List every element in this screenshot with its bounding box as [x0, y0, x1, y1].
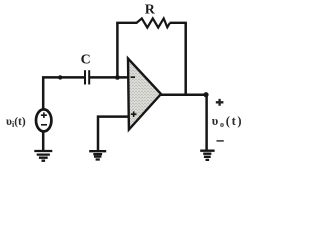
source plus sign — [41, 112, 47, 118]
source minus sign — [41, 124, 47, 126]
node dot on input wire — [58, 75, 62, 79]
wire: feedback left vertical (inverting node up to R) — [116, 23, 119, 79]
wire: output node down to ground — [205, 95, 208, 150]
op-amp inverting input minus sign — [131, 76, 135, 78]
ground (left, under source) — [34, 151, 52, 161]
output plus polarity mark — [216, 99, 224, 106]
wire: capacitor to op-amp inverting input — [89, 76, 128, 79]
wire: source bottom to ground — [42, 131, 45, 152]
junction dot: output node — [203, 92, 208, 97]
voltage source Vi ellipse — [36, 109, 51, 131]
output minus polarity mark — [217, 140, 224, 142]
capacitor C left plate — [84, 70, 86, 84]
junction dot: inverting node A — [115, 75, 120, 80]
op-amp U1 triangle — [128, 59, 161, 130]
ground (right, at output) — [200, 151, 214, 160]
wire: top rail right segment — [170, 22, 187, 24]
wire: top rail left segment — [116, 22, 137, 24]
op-amp non-inverting plus sign — [131, 111, 137, 117]
wire: op-amp output to output node — [160, 93, 207, 96]
svg-text:R: R — [145, 3, 156, 18]
ground (middle, at + input) — [89, 151, 106, 159]
capacitor C right plate — [88, 70, 90, 84]
wire: source top to capacitor (corner at left) — [43, 77, 84, 109]
svg-text:υo(t): υo(t) — [212, 114, 244, 129]
resistor R (zigzag) — [136, 18, 169, 27]
svg-text:C: C — [81, 53, 91, 68]
wire: feedback right vertical down to output — [184, 23, 187, 95]
wire: non-inverting input to ground — [98, 117, 129, 153]
svg-text:υi(t): υi(t) — [6, 116, 26, 129]
